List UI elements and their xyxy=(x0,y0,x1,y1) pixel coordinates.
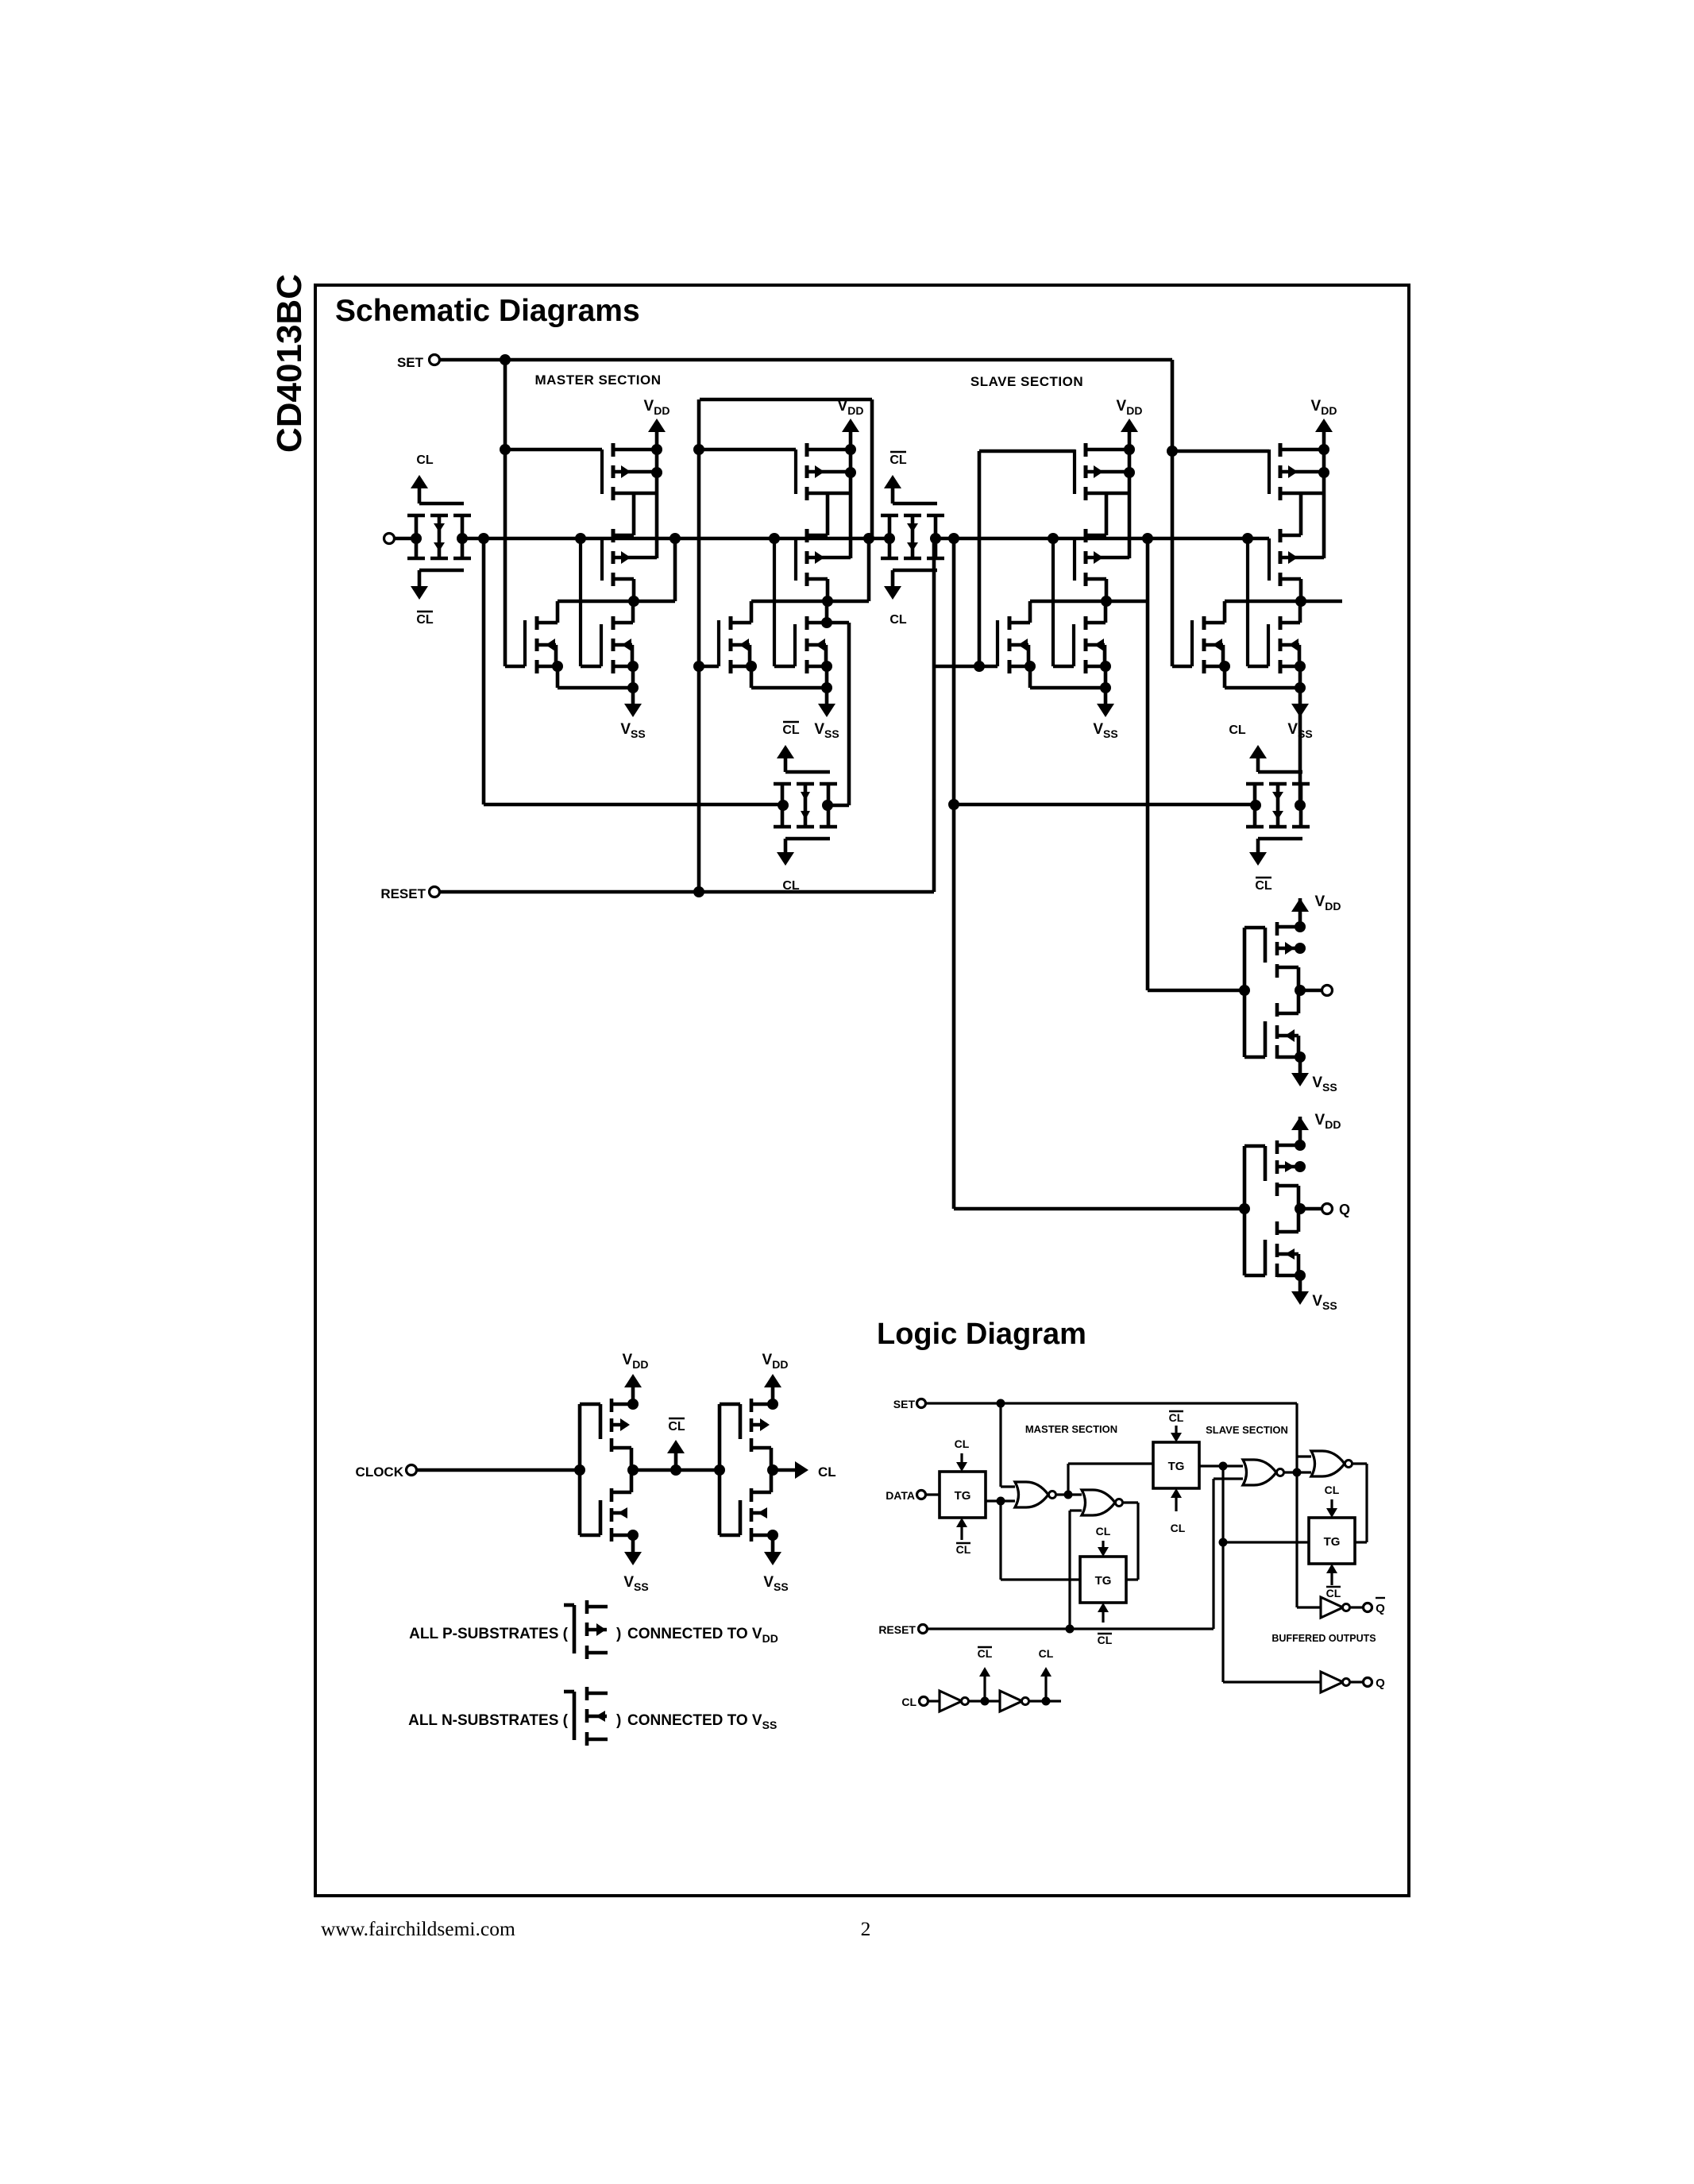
wire slave latch to Q buffer xyxy=(1221,1466,1224,1682)
wire RESET line (logic) xyxy=(928,1627,1214,1630)
node Q output xyxy=(1223,1680,1321,1683)
wire slave node drop to lower buffer xyxy=(952,538,956,1209)
svg-text:2: 2 xyxy=(861,1917,871,1940)
svg-text:ALL P-SUBSTRATES (: ALL P-SUBSTRATES ( xyxy=(409,1626,569,1642)
wire gate3 source/ground node xyxy=(1104,601,1108,623)
symbol legend P-substrate transistor xyxy=(573,1605,577,1653)
wire gate1 N1 connections xyxy=(556,601,560,623)
VSS power symbol of clkinv2 xyxy=(771,1535,775,1554)
wire TGf2 output riser xyxy=(1298,708,1302,805)
transistor buffer2 output stage xyxy=(1275,1183,1279,1196)
wire master feedback return xyxy=(999,1501,1001,1580)
transistor gate4-N1 (left NMOS) xyxy=(1202,616,1206,630)
block TG1 (TG box) xyxy=(940,1472,986,1518)
wire master feedback drop xyxy=(482,538,486,805)
transistor buffer2-N (NMOS) xyxy=(1275,1244,1279,1257)
clock arrow into TGsf bottom xyxy=(1330,1572,1333,1585)
svg-text:Logic Diagram: Logic Diagram xyxy=(877,1318,1086,1351)
svg-text:CLOCK: CLOCK xyxy=(356,1464,404,1480)
svg-text:SLAVE SECTION: SLAVE SECTION xyxy=(970,374,1083,389)
wire gate of gate3-N2 from data line xyxy=(1052,538,1055,666)
VDD power symbol of clkinv2 xyxy=(771,1385,775,1404)
transistor gate2-P2 (lower PMOS) xyxy=(805,529,809,542)
svg-text:CL: CL xyxy=(1326,1587,1341,1599)
svg-text:CL: CL xyxy=(1255,879,1272,893)
wire gate3 N1 connections xyxy=(1028,601,1032,623)
gate invQ (inverter) xyxy=(1321,1672,1343,1692)
VSS power symbol of gate2 xyxy=(825,688,829,707)
wire bridge over gate2 (output to TG2) xyxy=(700,398,872,402)
svg-text:CL: CL xyxy=(1169,1411,1184,1424)
wire SET to gate4 PMOS gate xyxy=(1172,450,1269,453)
VSS power symbol of gate3 xyxy=(1104,688,1108,707)
transistor gate2-N2 (right NMOS) xyxy=(805,616,809,630)
svg-text:): ) xyxy=(616,1712,621,1729)
wire series connection P1-P2 of gate1 xyxy=(632,493,636,535)
VDD power symbol of gate2 xyxy=(849,430,853,450)
wire gate bracket of gate4-N1 xyxy=(1190,620,1194,666)
wire gate2 source/ground node xyxy=(825,601,829,623)
transistor gate1-N1 (left NMOS) xyxy=(535,616,539,630)
transistor gate3-P1 (upper PMOS) xyxy=(1084,443,1088,457)
wire gate bracket of clkinv1 xyxy=(578,1404,582,1535)
wire gate3 output node xyxy=(1105,579,1109,601)
block TG2m (TG box) xyxy=(1080,1557,1126,1603)
wire gate bracket of gate3-N1 xyxy=(996,620,999,666)
VDD power symbol of gate4 xyxy=(1322,430,1326,450)
wire CL output arrow xyxy=(773,1468,797,1472)
svg-text:RESET: RESET xyxy=(878,1623,916,1636)
svg-text:ALL N-SUBSTRATES (: ALL N-SUBSTRATES ( xyxy=(408,1712,569,1729)
wire NOR1 output to slave TG xyxy=(1067,1464,1069,1495)
svg-text:CL: CL xyxy=(416,453,434,467)
wire series connection P1-P2 of gate2 xyxy=(826,493,830,535)
svg-text:CL: CL xyxy=(1096,1525,1111,1538)
svg-text:CL: CL xyxy=(416,613,434,627)
block TGsf (TG box) xyxy=(1309,1518,1355,1564)
svg-text:RESET: RESET xyxy=(380,886,426,901)
wire gate bracket of clkinv2 xyxy=(718,1404,722,1535)
wire NOR2 output to feedback TG xyxy=(1122,1501,1138,1503)
transistor clkinv2-N (NMOS) xyxy=(750,1508,754,1522)
wire DATA line xyxy=(394,537,418,541)
wire VDD rail of gate4 xyxy=(1322,450,1326,558)
transistor gate1-P2 (lower PMOS) xyxy=(612,529,615,542)
wire gate4 N1 connections xyxy=(1223,601,1227,623)
svg-text:CL: CL xyxy=(818,1464,836,1480)
transistor buffer1 output stage xyxy=(1275,964,1279,978)
transistor gate2-N1 (left NMOS) xyxy=(729,616,733,630)
wire SET drop to gate1 xyxy=(504,360,507,666)
transistor gate3-N2 (right NMOS) xyxy=(1084,616,1088,630)
gate invQbar (inverter) xyxy=(1321,1597,1343,1618)
wire gate2 output node xyxy=(826,579,830,601)
wire NOR1 output xyxy=(1055,1493,1082,1495)
transistor gate4-P1 (upper PMOS) xyxy=(1279,443,1283,457)
gate NOR1 (NOR) xyxy=(1015,1482,1048,1507)
clock arrow into TGs bottom xyxy=(1175,1496,1177,1511)
VSS power symbol of gate4 xyxy=(1298,688,1302,707)
svg-text:CL: CL xyxy=(956,1543,971,1556)
transistor buffer2-P (PMOS) xyxy=(1275,1140,1279,1154)
VDD power symbol of buffer1 xyxy=(1298,898,1302,927)
transistor gate3-N1 (left NMOS) xyxy=(1008,616,1012,630)
svg-text:Q: Q xyxy=(1376,1677,1385,1690)
transistor gate1-P1 (upper PMOS) xyxy=(612,443,615,457)
wire CLOCK line xyxy=(417,1468,580,1472)
page frame border xyxy=(315,285,1409,1896)
junction dots on data line xyxy=(411,533,422,544)
wire gate of gate3-P2 from data line xyxy=(1073,538,1076,581)
wire gate of gate4-P2 from data line xyxy=(1268,538,1271,581)
gate NOR4 (NOR) xyxy=(1311,1451,1345,1476)
wire TG2 output to gate3 NMOS gate xyxy=(934,665,997,669)
svg-text:CL: CL xyxy=(1229,723,1246,737)
wire gate bracket of gate2-N1 xyxy=(717,620,720,666)
transmission gate TGf2 (slave feedback) xyxy=(1253,784,1257,827)
wire RESET to NOR3 xyxy=(1212,1479,1214,1629)
wire gate bracket of buffer2 xyxy=(1243,1146,1247,1275)
transistor gate2-P1 (upper PMOS) xyxy=(805,443,809,457)
svg-text:CL: CL xyxy=(1039,1647,1054,1660)
wire gate2 N1 connections xyxy=(750,601,754,623)
transmission gate TG1 (data input, master) xyxy=(415,515,419,558)
wire series connection P1-P2 of gate4 xyxy=(1299,493,1303,535)
wire gate bracket of buffer1 xyxy=(1243,928,1247,1057)
clock arrow into TG1 bottom xyxy=(960,1526,963,1540)
transistor buffer1-P (PMOS) xyxy=(1275,922,1279,936)
svg-text:MASTER SECTION: MASTER SECTION xyxy=(1025,1423,1117,1435)
transistor gate4-P2 (lower PMOS) xyxy=(1279,529,1283,542)
wire gate2 output riser xyxy=(867,538,871,601)
wire gate1 output node xyxy=(632,579,636,601)
wire SET horizontal bus xyxy=(439,358,1172,362)
block TGs (TG box) xyxy=(1153,1442,1199,1488)
wire gate of gate2-P2 from data line xyxy=(794,538,797,581)
svg-text:SET: SET xyxy=(893,1398,916,1410)
symbol legend N-substrate transistor xyxy=(573,1692,577,1740)
svg-text:TG: TG xyxy=(1324,1535,1341,1549)
wire RESET line xyxy=(439,890,934,894)
svg-text:BUFFERED OUTPUTS: BUFFERED OUTPUTS xyxy=(1271,1633,1376,1644)
svg-text:CL: CL xyxy=(1325,1484,1340,1496)
svg-text:DATA: DATA xyxy=(886,1489,915,1502)
gate NOR2 (NOR) xyxy=(1082,1490,1115,1515)
wire SET to NOR4 and Q-bar buffer xyxy=(1295,1403,1298,1607)
wire gate of gate1-N2 from data line xyxy=(579,538,582,666)
transistor gate3-P2 (lower PMOS) xyxy=(1084,529,1088,542)
clock arrow CL (logic) xyxy=(1044,1675,1047,1701)
wire lower buffer feed xyxy=(954,1207,1245,1211)
svg-text:CD4013BC: CD4013BC xyxy=(270,274,309,453)
svg-text:SLAVE SECTION: SLAVE SECTION xyxy=(1206,1424,1288,1436)
VSS power symbol of buffer2 xyxy=(1298,1275,1302,1295)
VSS power symbol of clkinv1 xyxy=(631,1535,635,1554)
wire RESET to NOR2 xyxy=(1068,1511,1071,1629)
transistor clkinv1-P (PMOS) xyxy=(610,1399,614,1412)
gate clk inverter B (inverter) xyxy=(1000,1691,1022,1711)
wire gate of gate4-N2 from data line xyxy=(1246,538,1249,666)
VDD power symbol of clkinv1 xyxy=(631,1385,635,1404)
wire CL-bar node (logic) xyxy=(969,1700,1000,1702)
VSS power symbol of buffer1 xyxy=(1298,1057,1302,1076)
wire VDD rail of gate2 xyxy=(849,450,853,558)
wire TG1 output xyxy=(986,1499,1015,1502)
VDD power symbol of buffer2 xyxy=(1298,1117,1302,1145)
wire slave feedback horizontal xyxy=(954,803,1255,807)
VSS power symbol of gate1 xyxy=(631,688,635,707)
wire TG2 output drop xyxy=(932,538,936,892)
svg-text:CONNECTED TO VDD: CONNECTED TO VDD xyxy=(627,1626,778,1645)
svg-text:www.fairchildsemi.com: www.fairchildsemi.com xyxy=(321,1917,515,1940)
wire gate2 lower gate / reset drop xyxy=(697,399,701,892)
svg-text:CL: CL xyxy=(889,613,907,627)
transistor clkinv2-P (PMOS) xyxy=(750,1399,754,1412)
node buffer2 output xyxy=(1295,1203,1306,1214)
wire gate3 gate feed horizontal xyxy=(979,450,1075,453)
svg-text:TG: TG xyxy=(955,1489,971,1503)
svg-text:CL: CL xyxy=(1171,1522,1186,1534)
node DATA input xyxy=(384,534,395,544)
wire TGf1 output riser xyxy=(828,804,849,808)
VDD power symbol of gate1 xyxy=(655,430,659,450)
wire SET line (logic) xyxy=(926,1402,1297,1404)
svg-text:TG: TG xyxy=(1168,1460,1185,1473)
svg-text:CONNECTED TO VSS: CONNECTED TO VSS xyxy=(627,1712,777,1731)
svg-text:CL: CL xyxy=(1098,1634,1113,1646)
transistor clkinv1-N (NMOS) xyxy=(610,1508,614,1522)
svg-text:TG: TG xyxy=(1095,1574,1112,1588)
wire CL node (logic) xyxy=(1029,1700,1061,1702)
transmission gate TGf1 (master feedback) xyxy=(781,784,785,827)
wire gate of gate2-N2 from data line xyxy=(773,538,776,666)
wire gate4 output node xyxy=(1299,579,1303,601)
transistor gate4-N2 (right NMOS) xyxy=(1279,616,1283,630)
wire gate1 output riser xyxy=(673,538,677,601)
svg-text:): ) xyxy=(616,1626,621,1642)
wire series connection P1-P2 of gate3 xyxy=(1105,493,1109,535)
transmission gate TG2 (slave input) xyxy=(888,515,892,558)
wire SET to NOR1 xyxy=(999,1403,1001,1487)
svg-text:CL: CL xyxy=(668,1420,685,1433)
clock arrow CL-bar (logic) xyxy=(983,1675,986,1701)
svg-text:Schematic Diagrams: Schematic Diagrams xyxy=(335,294,640,328)
wire gate of gate1-P2 from data line xyxy=(600,538,604,581)
wire SET to gate1 PMOS gate xyxy=(505,448,602,452)
wire NOR4 inputs xyxy=(1297,1455,1311,1457)
clock arrow into TG2m bottom xyxy=(1102,1611,1104,1623)
wire gate3 output riser and buffer feed xyxy=(1146,538,1150,990)
wire VDD rail of gate3 xyxy=(1128,450,1132,558)
VDD power symbol of gate3 xyxy=(1128,430,1132,450)
svg-text:CL: CL xyxy=(782,723,800,737)
svg-text:CL: CL xyxy=(901,1696,916,1708)
svg-text:Q: Q xyxy=(1376,1602,1385,1615)
svg-text:CL: CL xyxy=(889,453,907,467)
gate clk inverter A (inverter) xyxy=(940,1691,962,1711)
svg-text:CL: CL xyxy=(978,1647,993,1660)
transistor buffer1-N (NMOS) xyxy=(1275,1025,1279,1039)
wire VDD rail of gate1 xyxy=(655,450,659,558)
wire to gate2 PMOS gate xyxy=(699,448,796,452)
transistor clkinv2 output leads xyxy=(750,1438,754,1452)
wire gate bracket of gate1-N1 xyxy=(523,620,527,666)
node buffer1 output xyxy=(1295,985,1306,996)
wire master feedback horizontal xyxy=(484,803,782,807)
wire NOR3 output xyxy=(1283,1471,1311,1473)
svg-text:MASTER SECTION: MASTER SECTION xyxy=(534,372,661,388)
svg-text:Q: Q xyxy=(1339,1202,1350,1217)
wire gate1 source/ground node xyxy=(631,601,635,623)
wire gate3 output to upper buffer xyxy=(1148,989,1245,993)
svg-text:CL: CL xyxy=(955,1437,970,1450)
wire gate3 gate feed vertical xyxy=(978,451,982,666)
wire TGs output xyxy=(1199,1464,1243,1467)
wire SET drop to gate4 xyxy=(1171,360,1175,666)
svg-text:SET: SET xyxy=(397,355,424,370)
transistor gate1-N2 (right NMOS) xyxy=(612,616,615,630)
wire gate4 source/ground node xyxy=(1298,601,1302,623)
wire NOR4 output loop to TGsf xyxy=(1352,1462,1367,1464)
wire CL-bar tap xyxy=(633,1468,720,1472)
gate NOR3 (NOR) xyxy=(1243,1460,1276,1485)
transistor clkinv1 output leads xyxy=(610,1438,614,1452)
